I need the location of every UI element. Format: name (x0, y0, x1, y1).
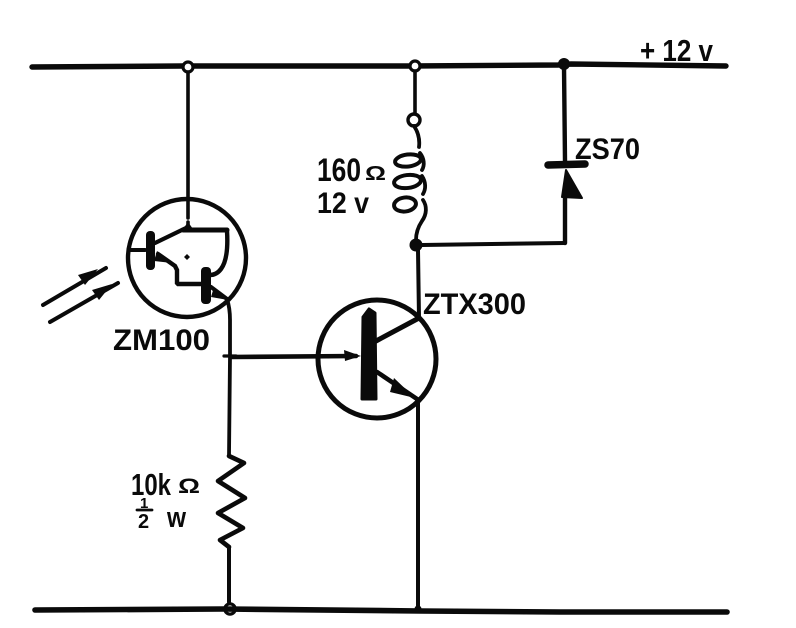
wire: rail down to diode cathode (564, 66, 565, 161)
phototransistor internal: collector right drop to Q2 (210, 231, 227, 275)
phototransistor internal: Q2 emitter arrow (211, 287, 227, 299)
svg-text:+ 12 v: + 12 v (640, 33, 714, 68)
wire: diode anode down to corner (563, 197, 567, 243)
diode D1 ZS70 cathode bar (548, 164, 585, 165)
resistor R1 zigzag (218, 456, 245, 547)
phototransistor internal: Q2 base bar (201, 267, 211, 304)
relay coil winding (414, 126, 419, 147)
svg-text:Ω: Ω (178, 475, 200, 498)
wire: rail junction down to ZM100 collector (186, 72, 190, 218)
wire: base node to ZTX300 base (with arrow) (231, 356, 356, 357)
wire: ZTX300 emitter down to bottom rail (416, 400, 420, 608)
node: filled dot on rail above diode (558, 58, 570, 70)
svg-text:Ω: Ω (365, 163, 386, 185)
svg-text:ZM100: ZM100 (113, 324, 210, 357)
transistor ZTX300 collector diagonal (376, 318, 419, 341)
phototransistor ZM100 internal darlington: Q1 base bar (146, 231, 155, 270)
wire: +12V top supply rail (32, 64, 726, 67)
wire: relay node to diode bottom (422, 243, 565, 245)
light arrow 1 (upper) (43, 268, 106, 305)
transistor ZTX300 base bar (362, 309, 376, 399)
light arrow 2 (lower) (50, 283, 118, 322)
resistor R1 10k wire from base node down (229, 357, 230, 456)
wire: ZTX300 collector up to relay node (418, 250, 419, 318)
diode D1 ZS70 anode triangle (pointing up) (562, 170, 582, 198)
svg-text:10k: 10k (131, 467, 172, 502)
svg-text:ZS70: ZS70 (575, 133, 640, 166)
wire: ZM100 emitter down to base node (227, 299, 230, 356)
node: emitter/rail junction tick (414, 605, 421, 612)
node: open circle at bottom rail under resistor (225, 604, 235, 614)
phototransistor internal: collector tie arrow at supply entry (183, 222, 193, 229)
node: open-circle junction on rail above relay coil (410, 61, 420, 71)
node: open circle at coil top (408, 114, 420, 126)
node: base node junction (224, 354, 236, 357)
svg-text:w: w (166, 502, 186, 534)
relay coil 160 ohm: top wire from rail (413, 71, 417, 114)
phototransistor internal: Q1 emitter arrow into Q2 base (154, 251, 172, 263)
svg-text:12 v: 12 v (317, 187, 369, 220)
phototransistor ZM100 body circle (128, 199, 246, 317)
transistor Q1 ZTX300 body circle (318, 300, 436, 418)
wire: resistor to bottom rail (227, 547, 231, 602)
transistor ZTX300 emitter diagonal with arrowhead (377, 372, 417, 399)
svg-text:ZTX300: ZTX300 (423, 288, 526, 321)
phototransistor internal: collector top line (183, 228, 227, 233)
svg-text:2: 2 (138, 511, 149, 533)
node: open-circle junction on rail above ZM100 (183, 62, 193, 72)
svg-text:160: 160 (317, 152, 361, 188)
wire: 0V bottom rail (35, 609, 727, 612)
phototransistor internal: Q1 base stub (129, 248, 145, 252)
phototransistor internal: center dot (184, 254, 190, 260)
phototransistor internal: Q1 collector diagonal (155, 228, 186, 243)
node: relay/diode junction dot (410, 239, 423, 252)
